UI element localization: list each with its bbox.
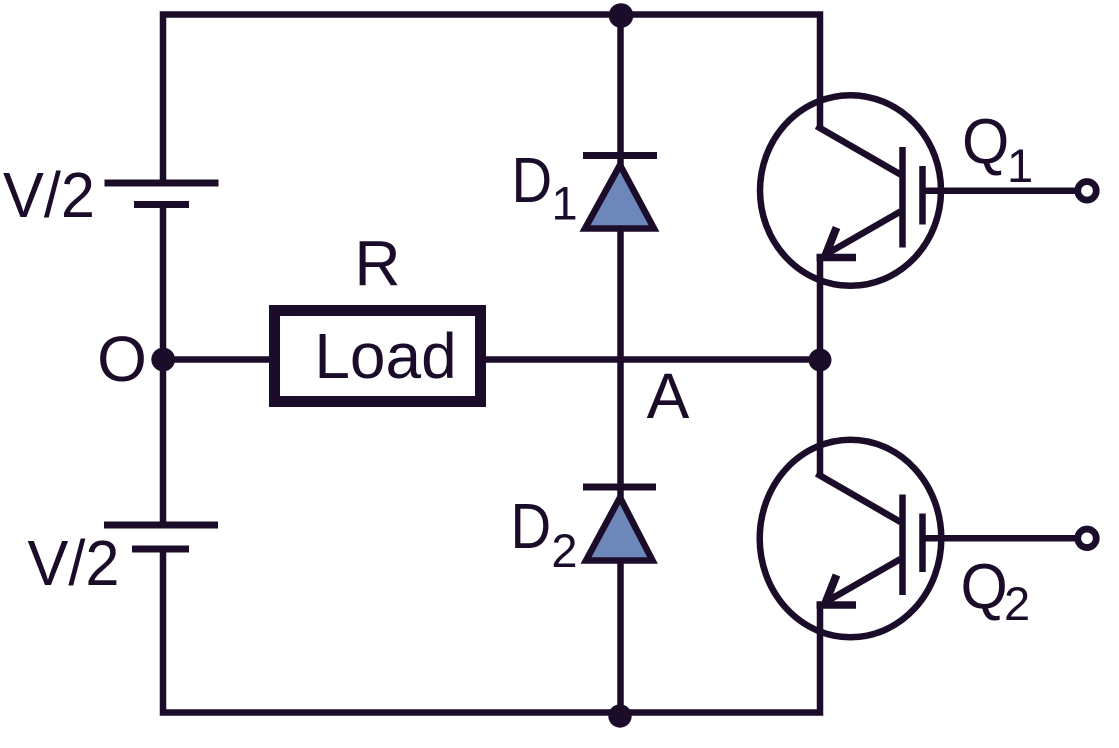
- svg-text:1: 1: [1007, 139, 1033, 192]
- svg-text:O: O: [97, 323, 147, 395]
- svg-text:A: A: [647, 360, 690, 432]
- svg-text:1: 1: [552, 177, 578, 230]
- svg-text:R: R: [354, 228, 400, 300]
- svg-text:D: D: [511, 490, 552, 562]
- svg-text:V/2: V/2: [28, 527, 120, 599]
- svg-text:Q: Q: [962, 106, 1009, 178]
- svg-text:Load: Load: [314, 320, 456, 392]
- svg-text:2: 2: [551, 524, 577, 577]
- svg-text:2: 2: [1004, 577, 1030, 630]
- svg-text:D: D: [512, 144, 553, 216]
- svg-text:V/2: V/2: [3, 159, 95, 231]
- svg-text:Q: Q: [961, 551, 1008, 623]
